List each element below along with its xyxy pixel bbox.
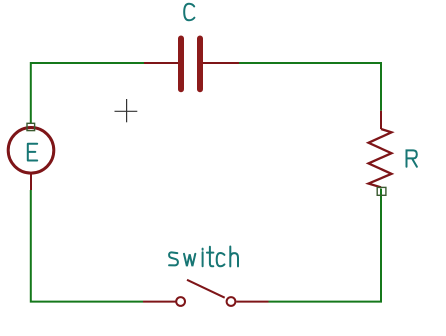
voltage source E [8,128,54,191]
capacitor C [144,39,239,90]
wire right-bottom segment [269,189,382,302]
wire left-bottom segment [31,190,143,302]
resistor R [369,111,392,188]
label E [28,144,37,161]
label switch [169,247,238,267]
unconnected pin square at E top [27,123,35,130]
unconnected pin square at R bottom [377,187,386,195]
origin crosshair [115,99,138,122]
label C [184,4,194,21]
switch SW [143,280,269,306]
wire top-left segment [31,63,144,124]
label R [407,150,417,166]
wire top-right segment [239,63,381,111]
